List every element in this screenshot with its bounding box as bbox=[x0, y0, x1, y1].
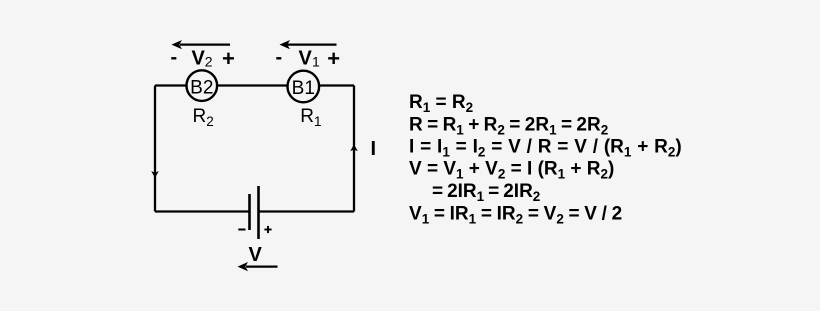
wire bottom right (from battery positive plate) bbox=[259, 210, 355, 212]
svg-text:V = V1 + V2 = I (R1 + R2): V = V1 + V2 = I (R1 + R2) bbox=[409, 159, 614, 182]
svg-text:V1 = IR1 = IR2 = V2 = V / 2: V1 = IR1 = IR2 = V2 = V / 2 bbox=[409, 203, 622, 226]
svg-text:-: - bbox=[171, 47, 178, 69]
svg-text:R1: R1 bbox=[300, 106, 321, 129]
battery BT1 negative plate (short) bbox=[248, 194, 251, 230]
svg-text:V: V bbox=[249, 244, 263, 266]
current direction arrow (down) on left wire bbox=[151, 171, 159, 178]
svg-text:-: - bbox=[276, 47, 283, 69]
bulb B2 bbox=[187, 70, 218, 101]
svg-text:R2: R2 bbox=[193, 106, 214, 129]
svg-text:2: 2 bbox=[205, 54, 213, 70]
svg-text:B2: B2 bbox=[190, 78, 213, 99]
svg-text:I = I1 = I2 = V / R = V / (R1: I = I1 = I2 = V / R = V / (R1 + R2) bbox=[409, 137, 682, 160]
V1 polarity arrow (points left) bbox=[288, 43, 337, 45]
svg-text:+: + bbox=[327, 46, 340, 71]
svg-text:B1: B1 bbox=[292, 78, 315, 99]
svg-text:V: V bbox=[299, 48, 313, 70]
svg-text:I: I bbox=[371, 138, 377, 160]
svg-text:R1 = R2: R1 = R2 bbox=[409, 92, 473, 115]
battery BT1 positive plate (long) bbox=[257, 186, 260, 239]
bulb B1 bbox=[288, 71, 320, 103]
wire left vertical bbox=[154, 86, 156, 212]
svg-text:1: 1 bbox=[312, 54, 320, 70]
svg-text:+: + bbox=[222, 46, 235, 71]
current direction arrow (up) on right wire with label I bbox=[350, 144, 358, 151]
wire right vertical bbox=[353, 86, 355, 212]
svg-text:V: V bbox=[192, 48, 206, 70]
svg-text:R = R1 + R2 = 2R1 = 2R2: R = R1 + R2 = 2R1 = 2R2 bbox=[409, 114, 608, 137]
wire top (B2 to B1 and end segments) bbox=[155, 84, 354, 86]
battery plus sign bbox=[264, 229, 271, 231]
battery minus sign bbox=[238, 229, 245, 231]
V2 polarity arrow (points left) bbox=[180, 43, 230, 45]
V arrow (points left) bbox=[246, 266, 278, 268]
wire bottom left (to battery negative plate) bbox=[155, 210, 250, 212]
svg-text:= 2IR1 = 2IR2: = 2IR1 = 2IR2 bbox=[432, 181, 540, 204]
